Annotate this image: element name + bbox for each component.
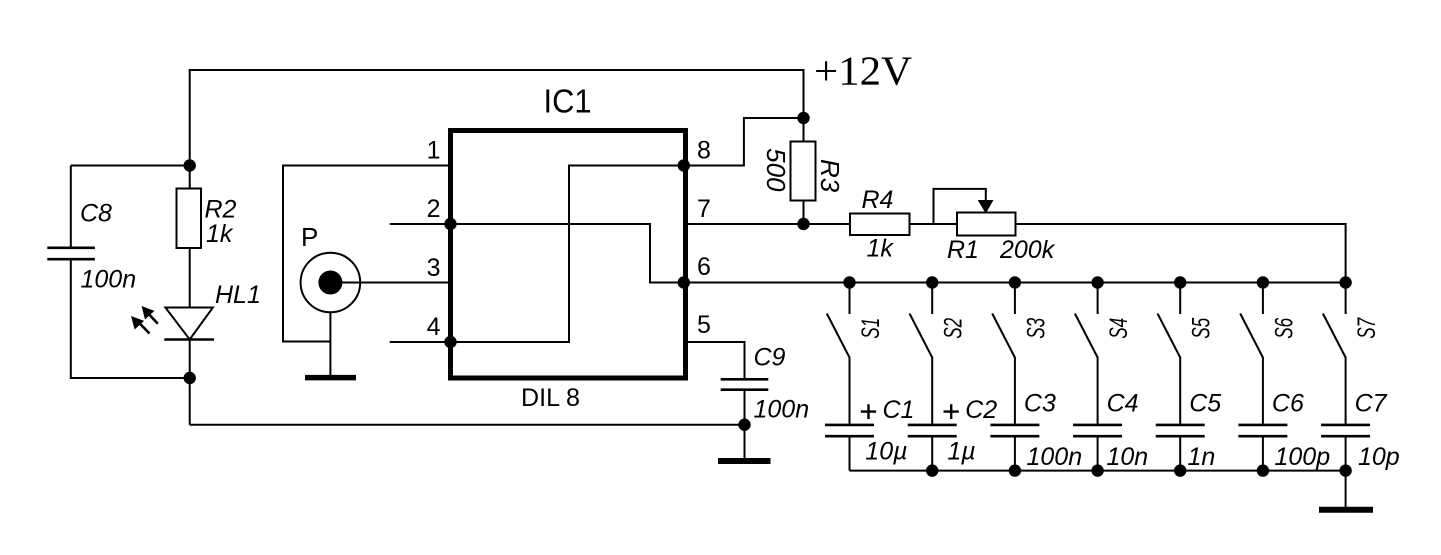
node R3/pin7/R4 <box>797 218 809 230</box>
svg-text:1n: 1n <box>1188 443 1216 471</box>
wire S3 to C3 <box>1014 357 1016 425</box>
node rail S6 <box>1257 276 1269 288</box>
capacitor C7 plates <box>1321 425 1370 436</box>
wire S2 to C2 <box>931 357 933 425</box>
switch S4 <box>1075 283 1098 358</box>
wire internal pin2-pin6 <box>452 224 681 283</box>
switch S3 <box>992 283 1015 358</box>
svg-text:1k: 1k <box>867 235 895 263</box>
capacitor C6 plates <box>1238 425 1287 436</box>
svg-text:IC1: IC1 <box>544 82 592 119</box>
svg-text:DIL 8: DIL 8 <box>521 384 580 412</box>
capacitor C8 plates <box>47 248 95 259</box>
LED HL1 cathode bar <box>164 338 214 340</box>
wire pin 8 to +12V node <box>684 118 804 166</box>
resistor R4 body <box>850 214 910 236</box>
svg-text:S5: S5 <box>1188 318 1216 339</box>
svg-text:100n: 100n <box>1027 443 1083 471</box>
wire pin 5 to C9 <box>688 342 745 380</box>
C2 polarity plus sign <box>944 404 959 419</box>
wire HL1 to bottom node <box>189 340 191 425</box>
svg-text:HL1: HL1 <box>215 281 261 309</box>
node bottom C6 <box>1257 464 1269 476</box>
wire C1 to bottom rail <box>849 436 851 470</box>
svg-text:1k: 1k <box>206 220 234 248</box>
wire C8 lower lead to bottom node <box>71 260 190 379</box>
node rail S5 <box>1174 276 1186 288</box>
ground at C9 <box>718 458 771 464</box>
wire R4 to R1 <box>910 223 958 225</box>
wire R3 bottom to node <box>803 201 805 225</box>
wire cap bank bottom rail <box>850 470 1346 472</box>
ground at P <box>305 375 356 381</box>
LED HL1 emission arrow upper <box>142 307 158 324</box>
svg-text:C7: C7 <box>1355 390 1388 418</box>
svg-text:10n: 10n <box>1107 443 1149 471</box>
capacitor C2 plates <box>908 425 957 436</box>
wire S7 to C7 <box>1345 357 1347 425</box>
node pin 8 <box>678 159 690 171</box>
node pin 6 <box>678 276 690 288</box>
capacitor C9 plates <box>721 379 769 389</box>
svg-text:1: 1 <box>427 137 441 165</box>
capacitor C4 plates <box>1073 425 1122 436</box>
svg-text:C9: C9 <box>754 344 786 372</box>
svg-text:4: 4 <box>427 313 441 341</box>
switch S7 <box>1323 283 1346 358</box>
wire C9 to ground node <box>744 390 746 459</box>
wire C5 to bottom rail <box>1179 436 1181 470</box>
svg-text:6: 6 <box>697 253 711 281</box>
svg-text:500: 500 <box>761 148 791 192</box>
svg-text:S3: S3 <box>1022 318 1050 339</box>
wire pin 6 rail <box>681 282 1346 284</box>
ground at C7 <box>1319 507 1373 513</box>
wire S6 to C6 <box>1262 357 1264 425</box>
wire C8 top to node <box>71 165 190 167</box>
connector P outer circle <box>301 253 361 313</box>
capacitor C5 plates <box>1156 425 1205 436</box>
svg-text:5: 5 <box>697 311 711 339</box>
node bottom C4 <box>1091 464 1103 476</box>
wire pin 3 to P <box>330 282 448 284</box>
wire P stem to ground <box>329 312 331 375</box>
node rail S4 <box>1091 276 1103 288</box>
svg-text:C4: C4 <box>1107 390 1139 418</box>
wire pin 1 to P sleeve <box>283 166 448 342</box>
potentiometer R1 body <box>957 213 1016 236</box>
svg-text:C6: C6 <box>1272 390 1304 418</box>
wire S5 to C5 <box>1179 357 1181 425</box>
switch S2 <box>910 283 933 358</box>
svg-text:C3: C3 <box>1024 390 1056 418</box>
node rail S2 <box>926 276 938 288</box>
node bottom C5 <box>1174 464 1186 476</box>
wire pin 4 stub <box>390 341 448 343</box>
connector P center pin <box>318 271 342 295</box>
svg-text:C1: C1 <box>883 396 915 424</box>
svg-text:100n: 100n <box>754 395 810 423</box>
wire C2 to bottom rail <box>931 436 933 470</box>
svg-text:C5: C5 <box>1189 390 1221 418</box>
switch S6 <box>1240 283 1263 358</box>
svg-text:1µ: 1µ <box>947 438 975 466</box>
svg-text:3: 3 <box>427 254 441 282</box>
wire node to R3 top <box>803 118 805 142</box>
svg-text:C8: C8 <box>80 200 112 228</box>
svg-text:2: 2 <box>427 195 441 223</box>
node bottom C3 <box>1009 464 1021 476</box>
node +12V/R3 <box>797 112 809 124</box>
node C9 bottom <box>738 419 750 431</box>
wire C7 ground stem <box>1345 471 1347 507</box>
svg-text:C2: C2 <box>965 396 997 424</box>
resistor R2 body <box>177 189 202 249</box>
wire S1 to C1 <box>849 357 851 425</box>
wire bottom left rail <box>190 424 745 426</box>
switch S1 <box>827 283 850 358</box>
wire +12V top rail <box>190 70 804 166</box>
wire C3 to bottom rail <box>1014 436 1016 470</box>
IC1 package box <box>451 131 686 379</box>
svg-text:10µ: 10µ <box>865 438 907 466</box>
svg-text:S6: S6 <box>1270 318 1298 339</box>
resistor R3 body <box>791 142 816 201</box>
svg-text:200k: 200k <box>999 236 1056 264</box>
wire pin 7 to R4 <box>683 223 850 225</box>
svg-text:10p: 10p <box>1358 443 1400 471</box>
wire C7 to bottom rail <box>1345 436 1347 470</box>
wire C8 upper lead <box>70 166 72 248</box>
node C8/HL1 bottom <box>184 372 196 384</box>
wire R1 output to rail <box>1016 224 1346 283</box>
switch S5 <box>1158 283 1181 358</box>
wire C4 to bottom rail <box>1097 436 1099 470</box>
node pin 4 <box>444 336 456 348</box>
node bottom C7 <box>1339 464 1351 476</box>
node rail S7 <box>1339 276 1351 288</box>
svg-text:100n: 100n <box>81 266 137 294</box>
C1 polarity plus sign <box>861 404 876 419</box>
wire C6 to bottom rail <box>1262 436 1264 470</box>
svg-text:+12V: +12V <box>814 48 912 94</box>
capacitor C3 plates <box>990 425 1039 436</box>
node pin 2 <box>444 218 456 230</box>
svg-text:S4: S4 <box>1105 318 1133 339</box>
svg-text:R3: R3 <box>815 159 845 193</box>
svg-text:S7: S7 <box>1353 317 1381 339</box>
potentiometer R1 wiper arrow <box>979 201 993 213</box>
svg-text:S2: S2 <box>940 318 968 339</box>
wire node to R2 <box>189 166 191 189</box>
svg-text:100p: 100p <box>1275 443 1331 471</box>
LED HL1 emission arrow lower <box>132 317 150 334</box>
wire S4 to C4 <box>1097 357 1099 425</box>
wire internal pin8-pin4 <box>452 166 681 343</box>
node rail S3 <box>1009 276 1021 288</box>
svg-text:P: P <box>301 222 318 252</box>
svg-text:R4: R4 <box>862 186 894 214</box>
wire R1 wiper link <box>934 189 986 224</box>
node C8/R2/+12V <box>184 159 196 171</box>
node bottom C2 <box>926 464 938 476</box>
svg-text:R1: R1 <box>947 236 979 264</box>
svg-text:8: 8 <box>697 137 711 165</box>
capacitor C1 plates <box>825 425 874 436</box>
wire R2 to HL1 <box>189 248 191 308</box>
svg-text:7: 7 <box>697 195 711 223</box>
LED HL1 triangle <box>165 308 213 340</box>
node rail S1 <box>843 276 855 288</box>
svg-text:S1: S1 <box>857 318 885 339</box>
wire pin 2 stub <box>390 223 448 225</box>
